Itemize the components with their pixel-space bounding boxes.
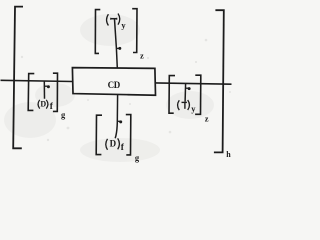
- wire: left pendant bond: [43, 81, 45, 99]
- node: right bond junction tick and dot: [185, 87, 190, 90]
- right group left bracket: [169, 76, 175, 114]
- svg-text:g: g: [135, 152, 140, 162]
- svg-text:h: h: [226, 150, 231, 159]
- subscript y (top group): [121, 20, 126, 30]
- CD box: [72, 68, 155, 96]
- subscript g (bottom group): [135, 152, 140, 162]
- svg-text:y: y: [191, 104, 196, 114]
- svg-text:CD: CD: [108, 80, 121, 90]
- wire: main chain right segment: [155, 83, 231, 84]
- node: left bond junction tick and dot: [44, 85, 50, 88]
- group (T)y (right group): [178, 100, 197, 114]
- group (D)f (bottom group): [106, 138, 125, 153]
- svg-text:D: D: [110, 139, 117, 149]
- bottom group right bracket: [126, 115, 131, 155]
- top group left bracket: [95, 10, 100, 54]
- top group right bracket: [132, 9, 137, 53]
- svg-text:y: y: [121, 20, 126, 30]
- node: top bond junction tick and dot: [116, 47, 121, 50]
- group (D)f (left group): [38, 100, 54, 113]
- bottom group left bracket: [96, 115, 102, 154]
- svg-text:z: z: [140, 50, 144, 60]
- top group open paren: [107, 14, 109, 25]
- wire: main chain left segment: [1, 80, 73, 81]
- outer right bracket: [214, 10, 224, 152]
- wire: right pendant bond: [184, 83, 187, 101]
- outer left bracket: [13, 7, 23, 149]
- paper scan shading (decorative): [4, 14, 214, 162]
- svg-text:D: D: [40, 100, 46, 109]
- left group right bracket: [53, 73, 58, 111]
- subscript z (right group): [205, 114, 209, 124]
- top group close paren: [118, 14, 120, 25]
- subscript g (left group): [61, 110, 66, 120]
- subscript h (outer bracket): [226, 150, 231, 159]
- right group right bracket: [195, 75, 201, 114]
- wire: bottom bond from CD box to (D)f: [115, 95, 117, 138]
- svg-text:z: z: [205, 114, 209, 124]
- atom T (top group): [111, 18, 117, 20]
- wire: top bond from (T)y to CD box: [115, 19, 118, 68]
- node: bottom bond junction tick and dot: [117, 120, 122, 123]
- subscript z (top group): [140, 50, 144, 60]
- left group left bracket: [28, 74, 34, 111]
